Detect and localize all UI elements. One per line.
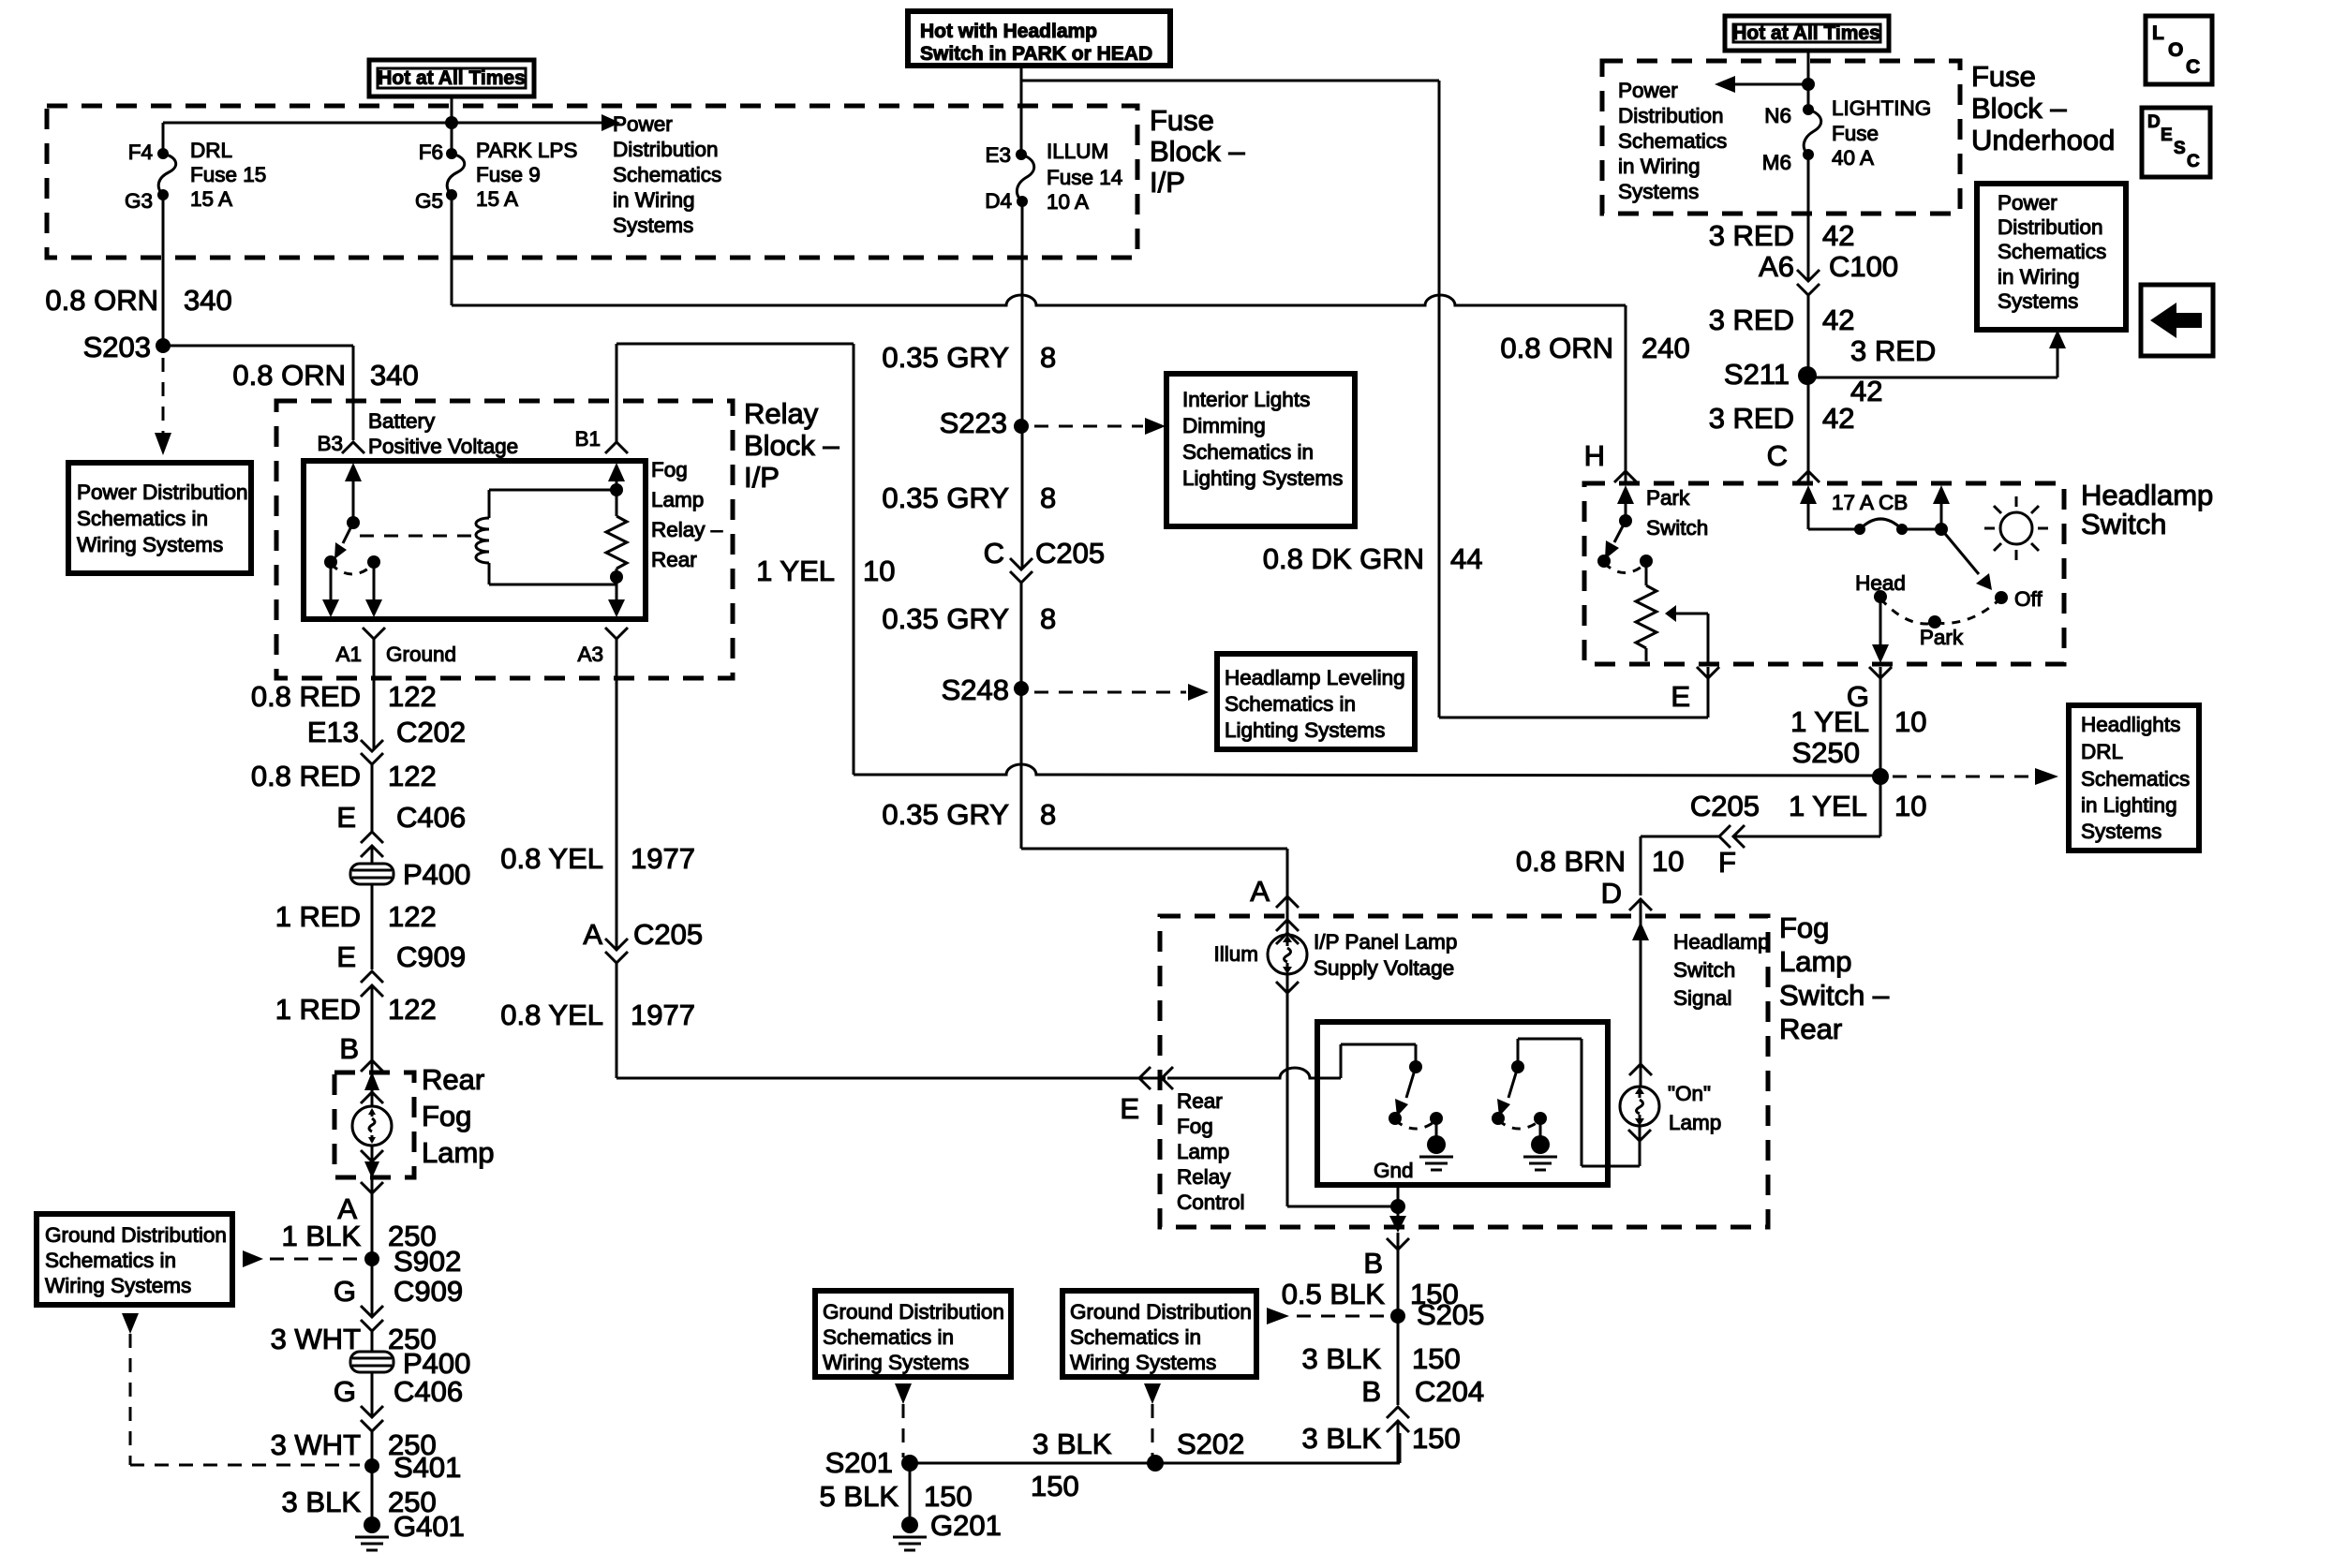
svg-text:Schematics: Schematics [1618,129,1727,153]
on lamp [1620,1082,1721,1141]
svg-text:in Wiring: in Wiring [613,188,695,212]
svg-text:Control: Control [1177,1191,1245,1214]
power distribution schematics box (left) [68,463,251,573]
fog lamp relay inner box [304,461,646,619]
svg-text:10: 10 [863,555,895,587]
svg-text:Power: Power [1618,79,1678,102]
svg-text:Lamp: Lamp [422,1136,495,1169]
svg-text:C205: C205 [1690,790,1760,822]
svg-text:ILLUM: ILLUM [1047,140,1108,163]
headlamp leveling box [1217,654,1415,749]
dashed arrow S250 to headlights DRL box [1893,768,2058,785]
svg-text:1 YEL: 1 YEL [1789,790,1867,822]
svg-text:C: C [2186,56,2200,78]
connector B C204 [1361,1375,1484,1432]
svg-text:10: 10 [1652,845,1684,878]
wire hot box to F6 [451,96,453,154]
label 0.35 GRY 8 (2) [882,481,1056,514]
svg-text:A1: A1 [335,643,362,666]
svg-text:0.8 RED: 0.8 RED [251,680,361,713]
label 3 BLK 150 (lower) [1302,1422,1461,1455]
pin A1 [335,628,456,666]
svg-text:G5: G5 [415,189,443,213]
wire G5 0.8 ORN 240 long run to H [452,195,1626,483]
svg-text:in Wiring: in Wiring [1618,155,1701,178]
pin A fog lamp switch [1250,875,1299,944]
svg-text:C204: C204 [1415,1375,1484,1408]
label 0.8 BRN 10 F [1516,845,1736,879]
svg-text:8: 8 [1040,481,1056,514]
svg-text:B: B [1361,1375,1381,1408]
label fog lamp switch rear [1779,911,1890,1045]
svg-text:3 BLK: 3 BLK [1302,1422,1382,1455]
svg-text:0.8 ORN: 0.8 ORN [232,359,346,392]
headlights DRL schematics box [2069,705,2199,851]
connector A6 C100 [1759,250,1898,295]
hot at all times box right [1725,16,1889,51]
svg-text:150: 150 [1412,1422,1461,1455]
fuse block I/P dashed box [47,106,1137,258]
node junction at arrow line [445,116,458,129]
svg-text:15 A: 15 A [476,187,518,211]
label 3 RED 42 (1) [1709,219,1855,252]
svg-text:Rear: Rear [422,1063,484,1096]
svg-text:1 RED: 1 RED [275,993,361,1026]
svg-text:3 RED: 3 RED [1709,219,1794,252]
label 0.8 ORN 340 (2) [232,359,418,392]
wiper arrow to E [1665,605,1708,665]
svg-text:S248: S248 [942,673,1009,706]
headlamp switch dashed box [1584,483,2064,664]
svg-text:122: 122 [388,760,437,792]
node S223 [940,407,1029,439]
switch 1 [1389,1060,1453,1170]
svg-text:Fuse: Fuse [1150,104,1214,137]
svg-text:3 BLK: 3 BLK [282,1486,362,1518]
svg-text:F6: F6 [419,141,443,164]
svg-text:Systems: Systems [613,214,693,237]
headlamp switch signal wire [1629,901,1652,1087]
svg-text:C100: C100 [1829,250,1898,283]
dashed linkage [360,535,476,538]
wire ILLUM gray run down and to A [1021,201,1287,935]
svg-text:S205: S205 [1417,1298,1484,1331]
relay resistor B1-A3 [606,463,627,617]
svg-text:A6: A6 [1759,250,1794,283]
dashed run left box to S401 [122,1313,360,1465]
svg-text:1 YEL: 1 YEL [1790,705,1869,738]
wire rear fog lamp to G401 [371,1178,374,1516]
node S201 [825,1446,918,1479]
label 0.8 RED 122 (1) [251,680,437,713]
svg-text:Schematics in: Schematics in [1225,692,1356,716]
svg-text:Block –: Block – [1971,92,2067,125]
switch blade to Off [1941,529,2042,611]
svg-text:0.35 GRY: 0.35 GRY [882,341,1009,374]
circuit breaker 17 A CB [1800,485,1950,536]
label relay block IP [744,397,839,494]
svg-text:H: H [1584,439,1605,472]
relay coil [476,483,623,584]
ground distribution box (left) [37,1214,232,1305]
pin B rear fog lamp [339,1032,383,1072]
svg-text:in Lighting: in Lighting [2081,793,2177,817]
svg-text:Fuse 9: Fuse 9 [476,163,541,186]
svg-text:Fuse 15: Fuse 15 [190,163,266,186]
fuse link P400 (1) [350,858,470,891]
fuse F4/G3 DRL Fuse 15 [125,123,266,213]
svg-text:340: 340 [184,284,232,317]
svg-text:D: D [2147,112,2161,132]
svg-text:F4: F4 [128,141,153,164]
wire G3 down to S203 [162,195,165,346]
svg-text:Switch: Switch [2081,508,2166,540]
svg-text:Schematics: Schematics [1998,240,2106,263]
wire M6 down to C [1807,155,1810,483]
svg-text:15 A: 15 A [190,187,232,211]
node S211 [1724,358,1817,391]
wire B down to ground bus [1397,1233,1400,1463]
svg-text:"On": "On" [1668,1082,1711,1105]
illum lamp [1213,935,1307,993]
svg-text:Wiring Systems: Wiring Systems [1070,1351,1216,1374]
wire illum lamp down to gnd junction [1287,974,1398,1206]
svg-text:C202: C202 [396,716,466,748]
label 0.35 GRY 8 (1) [882,341,1056,374]
svg-text:17 A CB: 17 A CB [1832,491,1908,514]
wire hot box down to E3 [1020,66,1023,155]
svg-text:Wiring Systems: Wiring Systems [823,1351,969,1374]
label 3 BLK / 150 (bus) [1031,1427,1112,1502]
svg-text:Battery: Battery [368,409,436,433]
arrow box [2141,285,2213,356]
svg-text:A3: A3 [577,643,603,666]
svg-text:Distribution: Distribution [613,138,719,161]
svg-text:42: 42 [1822,402,1854,435]
label fuse block IP [1150,104,1245,199]
svg-text:Fuse: Fuse [1971,60,2036,93]
svg-text:Lamp: Lamp [1779,945,1852,978]
wire G down to S250 and C205 [1879,667,1882,836]
svg-text:B1: B1 [574,427,601,451]
svg-text:Schematics in: Schematics in [77,507,208,530]
label 1 BLK 250 [282,1220,437,1252]
svg-text:Distribution: Distribution [1998,215,2103,239]
wire S201 to G201 [909,1463,912,1516]
ground distribution box (mid 1) [815,1291,1011,1377]
svg-text:C406: C406 [394,1375,463,1408]
lamp sun symbol [1984,496,2048,560]
svg-text:Relay: Relay [1177,1165,1231,1189]
svg-text:0.5 BLK: 0.5 BLK [1282,1278,1386,1310]
svg-text:Switch in PARK or HEAD: Switch in PARK or HEAD [920,43,1152,65]
label 0.35 GRY 8 (4) [882,798,1056,831]
wire DK GRN to headlamp switch E [1439,667,1708,717]
label 5 BLK 150 [820,1480,973,1513]
rear fog lamp element [352,1057,392,1178]
svg-text:Headlights: Headlights [2081,713,2180,736]
svg-text:Systems: Systems [1618,180,1699,203]
connector G C406 [334,1375,463,1431]
dashed arc head park off [1880,599,1998,649]
svg-text:Systems: Systems [2081,820,2161,843]
wire S203 to B3 [163,346,353,440]
svg-text:L: L [2152,22,2164,44]
svg-text:Hot at All Times: Hot at All Times [378,67,526,89]
label 3 RED 42 (3) [1709,402,1855,435]
node S250 [1792,736,1889,785]
svg-text:S223: S223 [940,407,1007,439]
svg-text:S202: S202 [1177,1427,1244,1460]
svg-text:B: B [1363,1247,1383,1280]
ground G201 [893,1509,1002,1550]
fuse N6/M6 LIGHTING Fuse 40A [1762,51,1932,174]
pin E headlamp switch [1671,667,1719,713]
pin A below rear fog lamp [337,1182,383,1225]
svg-text:10 A: 10 A [1047,190,1089,214]
node S202 [1147,1427,1244,1472]
svg-text:PARK LPS: PARK LPS [476,139,577,162]
head contact and wire to G [1855,571,1906,663]
svg-text:Systems: Systems [1998,289,2078,313]
svg-text:Headlamp Leveling: Headlamp Leveling [1225,666,1405,689]
connector E13 C202 [307,716,466,764]
svg-text:Schematics: Schematics [2081,767,2190,791]
wire B1 feed from S250 line [616,344,854,775]
label 0.8 ORN 340 (1) [45,284,231,317]
svg-text:Interior Lights: Interior Lights [1182,388,1310,411]
label 0.8 RED 122 (2) [251,760,437,792]
svg-text:3 RED: 3 RED [1850,334,1936,367]
wire switch 2 feed from on lamp [1518,1039,1640,1166]
svg-text:0.8 YEL: 0.8 YEL [500,842,603,875]
svg-text:Schematics: Schematics [613,163,721,186]
relay block IP dashed box [276,401,733,678]
svg-text:10: 10 [1894,705,1926,738]
svg-text:D4: D4 [985,189,1012,213]
svg-text:I/P Panel Lamp: I/P Panel Lamp [1314,930,1457,954]
fuse E3/D4 ILLUM Fuse 14 [985,140,1122,214]
svg-text:Fog: Fog [1177,1115,1213,1138]
svg-text:44: 44 [1450,542,1482,575]
svg-text:Fog: Fog [651,458,688,481]
svg-text:Block –: Block – [1150,135,1245,168]
svg-text:C: C [2187,152,2200,171]
svg-text:C: C [984,537,1004,570]
svg-text:S250: S250 [1792,736,1860,769]
park switch arm [1597,485,1653,573]
svg-text:122: 122 [388,993,437,1026]
svg-text:D: D [1601,877,1622,910]
dashed arrow box2 to S205 [1267,1308,1387,1324]
svg-text:150: 150 [1031,1470,1079,1502]
svg-text:Relay: Relay [744,397,819,430]
svg-text:1 BLK: 1 BLK [282,1220,362,1252]
svg-text:G: G [334,1275,356,1308]
svg-text:C205: C205 [633,918,703,951]
label rear fog lamp relay control [1177,1089,1245,1214]
label 3 RED / 42 (branch) [1850,334,1936,407]
svg-text:Ground: Ground [386,643,456,666]
svg-text:3 RED: 3 RED [1709,402,1794,435]
label 0.8 ORN 240 [1500,332,1689,364]
svg-text:1977: 1977 [631,998,695,1031]
svg-text:42: 42 [1822,303,1854,336]
svg-text:N6: N6 [1764,104,1791,127]
svg-text:Switch –: Switch – [1779,979,1890,1012]
svg-text:Fog: Fog [422,1100,471,1132]
label 1 RED 122 (1) [275,900,437,933]
relay switch arm B3 [322,463,382,617]
svg-text:3 RED: 3 RED [1709,303,1794,336]
wire arrow left inside underhood box [1715,76,1815,93]
svg-text:1977: 1977 [631,842,695,875]
fuse link P400 (2) [350,1347,470,1380]
label 1 YEL 10 (relay feed) [756,555,895,587]
pin D fog lamp switch [1601,877,1652,910]
LOC box [2146,16,2212,84]
power distribution schematics box (right) [1977,184,2126,330]
label fog lamp relay rear [651,458,723,571]
svg-text:Illum: Illum [1213,942,1258,966]
svg-text:E: E [336,940,356,973]
node S203 [83,331,171,363]
wire S250 down to C205 F and D [1641,777,1880,895]
svg-text:0.8 ORN: 0.8 ORN [45,284,158,317]
fog lamp switch dashed box [1160,916,1768,1227]
svg-text:Hot with Headlamp: Hot with Headlamp [920,21,1097,42]
svg-text:LIGHTING: LIGHTING [1832,96,1931,120]
svg-text:C909: C909 [396,940,466,973]
svg-text:Switch: Switch [1673,958,1735,982]
connector G C909 [334,1275,463,1331]
svg-text:DRL: DRL [190,139,232,162]
svg-text:5 BLK: 5 BLK [820,1480,899,1513]
pin A3 [577,628,628,666]
svg-text:C205: C205 [1035,537,1105,570]
svg-text:E: E [336,801,356,834]
pin G headlamp switch [1847,667,1892,713]
svg-text:Dimming: Dimming [1182,414,1266,437]
svg-text:E13: E13 [307,716,359,748]
label headlamp switch signal [1673,930,1770,1010]
dashed arrow S223 to interior lights box [1034,418,1166,435]
label 3 WHT 250 (2) [271,1428,437,1461]
svg-text:Block –: Block – [744,429,839,462]
dashed drop box1 to S201 [895,1383,912,1457]
svg-text:8: 8 [1040,602,1056,635]
svg-text:S401: S401 [394,1451,461,1484]
svg-text:40 A: 40 A [1832,146,1874,170]
svg-text:Off: Off [2014,587,2042,611]
label rear fog lamp [422,1063,495,1169]
svg-text:Ground Distribution: Ground Distribution [45,1223,227,1247]
label fuse block underhood [1971,60,2115,156]
rear fog lamp dashed box [334,1072,414,1177]
svg-text:8: 8 [1040,798,1056,831]
svg-text:C406: C406 [396,801,466,834]
label 0.35 GRY 8 (3) [882,602,1056,635]
svg-text:Positive Voltage: Positive Voltage [368,435,518,458]
pin C headlamp switch [1767,439,1820,482]
svg-text:Schematics in: Schematics in [1070,1325,1201,1349]
node S902 [364,1245,461,1278]
svg-text:S211: S211 [1724,358,1790,391]
connector E C406 [336,801,466,857]
svg-text:1 YEL: 1 YEL [756,555,835,587]
svg-text:Lighting Systems: Lighting Systems [1225,718,1385,742]
svg-text:G: G [334,1375,356,1408]
svg-text:Signal: Signal [1673,986,1732,1010]
svg-text:150: 150 [1412,1342,1461,1375]
label IP panel lamp supply voltage [1314,930,1457,980]
dashed arrow S203 to power dist box [155,358,171,455]
svg-text:340: 340 [370,359,419,392]
dashed arrow to S902 [243,1250,360,1267]
svg-text:Ground Distribution: Ground Distribution [1070,1300,1252,1324]
label power distribution schematics (fuse block IP) [613,112,721,237]
svg-text:A: A [583,918,602,951]
wire A3 down to E fog switch [616,639,1416,1078]
svg-text:Rear: Rear [651,548,697,571]
wire A1 down chain [372,639,374,1063]
svg-text:P400: P400 [403,858,470,891]
fuse F6/G5 PARK LPS Fuse 9 [415,139,577,213]
svg-text:F: F [1718,846,1736,879]
label 3 WHT 250 (1) [271,1323,437,1355]
svg-text:C909: C909 [394,1275,463,1308]
svg-text:150: 150 [924,1480,973,1513]
svg-text:S203: S203 [83,331,151,363]
wire on lamp down [1639,1126,1641,1166]
connector A C205 [583,918,703,963]
pin B3 [317,432,364,455]
svg-text:Switch: Switch [1646,516,1708,540]
svg-text:Headlamp: Headlamp [2081,479,2213,511]
svg-text:Schematics in: Schematics in [1182,440,1314,464]
svg-text:in Wiring: in Wiring [1998,265,2080,288]
svg-text:Fuse: Fuse [1832,122,1879,145]
svg-text:42: 42 [1822,219,1854,252]
svg-text:8: 8 [1040,341,1056,374]
svg-text:Schematics in: Schematics in [45,1249,176,1272]
gnd pin B [1363,1159,1413,1280]
label 0.8 YEL 1977 (1) [500,842,695,875]
dashed drop box2 to S202 [1144,1383,1161,1457]
svg-text:E: E [2161,126,2173,145]
hot at all times box left [369,60,534,96]
svg-text:3 WHT: 3 WHT [271,1428,362,1461]
svg-text:0.35 GRY: 0.35 GRY [882,798,1009,831]
svg-text:O: O [2168,39,2183,61]
DESC box [2142,108,2210,177]
pin H headlamp switch [1584,439,1637,482]
fog switch inner box [1317,1022,1608,1185]
svg-text:C: C [1767,439,1788,472]
svg-text:Lamp: Lamp [651,488,704,511]
label 3 RED 42 (2) [1709,303,1855,336]
ground G401 [355,1510,465,1550]
svg-text:E: E [1120,1092,1139,1125]
node S248 [942,673,1029,706]
fuse block underhood dashed box [1602,61,1960,214]
svg-text:1 RED: 1 RED [275,900,361,933]
label headlamp switch [2081,479,2213,540]
svg-text:Park: Park [1920,626,1964,649]
svg-text:Rear: Rear [1177,1089,1223,1113]
pin E fog lamp switch [1120,1067,1173,1125]
label 0.8 DK GRN 44 [1263,542,1483,575]
